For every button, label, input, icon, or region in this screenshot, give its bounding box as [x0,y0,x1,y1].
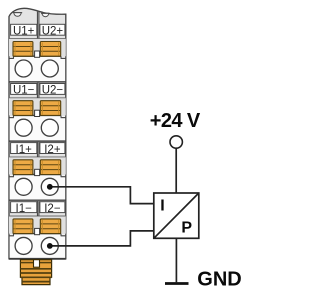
clamp I2+ [40,160,60,175]
socket row backgrounds [10,57,65,81]
label box I2+ [40,143,65,156]
I/P converter box [154,193,199,238]
svg-text:I1+: I1+ [16,144,33,156]
svg-text:U2−: U2− [42,85,64,97]
clamp U2+ [40,42,60,57]
clamp strip 4 [9,216,66,236]
bus foot connector [20,260,51,285]
svg-text:I1−: I1− [16,203,33,215]
clamp strip 3 [9,157,66,177]
svg-text:+24 V: +24 V [150,110,201,132]
label box I1- [11,202,37,215]
test socket U1- [15,119,32,136]
label box U1+ [11,24,37,37]
bus foot slot [34,260,40,268]
test socket U1+ [15,60,32,77]
clamp U1- [13,101,33,116]
junction dot I2- [47,243,53,249]
label box U1- [11,84,37,97]
terminal block body [9,8,66,259]
svg-text:I2−: I2− [44,203,61,215]
housing notch left [13,13,22,17]
wire converter to ground [175,238,177,282]
clamp I2- [40,219,60,234]
strip notch 2 [35,110,40,116]
svg-text:P: P [181,220,192,237]
svg-text:U1−: U1− [13,85,35,97]
clamp I1+ [13,160,33,175]
clamp U2- [40,101,60,116]
wire I2- to converter [50,231,154,246]
section divider 1 [9,81,66,83]
label box U2+ [40,24,65,37]
clamp I1- [13,219,33,234]
svg-text:U1+: U1+ [13,26,35,38]
strip notch 4 [35,228,40,234]
wire supply to converter [175,148,177,193]
test socket I2+ [41,178,58,195]
strip notch 3 [35,169,40,175]
center partition 2 [37,83,39,98]
housing notch right [41,13,50,16]
test socket U2+ [41,60,58,77]
svg-text:U2+: U2+ [42,26,64,38]
junction dot I2+ [47,184,53,190]
label box U2- [40,84,65,97]
label box I2- [40,202,65,215]
center partition (top) [37,12,39,39]
+24 V supply terminal [170,136,182,148]
center partition 3 [37,142,39,157]
clamp U1+ [13,42,33,57]
strip notch 1 [35,51,40,57]
test socket I1+ [15,178,32,195]
wire I2+ to converter [50,187,154,204]
label box I1+ [11,143,37,156]
block bottom edge [9,258,66,260]
svg-text:I: I [160,198,164,215]
svg-text:I2+: I2+ [44,144,61,156]
svg-text:GND: GND [197,268,241,290]
clamp strip 2 [9,98,66,118]
section divider 2 [9,140,66,142]
test socket I1- [15,237,32,254]
ground bar [165,282,189,285]
section divider 3 [9,199,66,201]
clamp strip 1 [9,39,66,59]
test socket I2- [41,237,58,254]
center partition 4 [37,201,39,216]
test socket U2- [41,119,58,136]
